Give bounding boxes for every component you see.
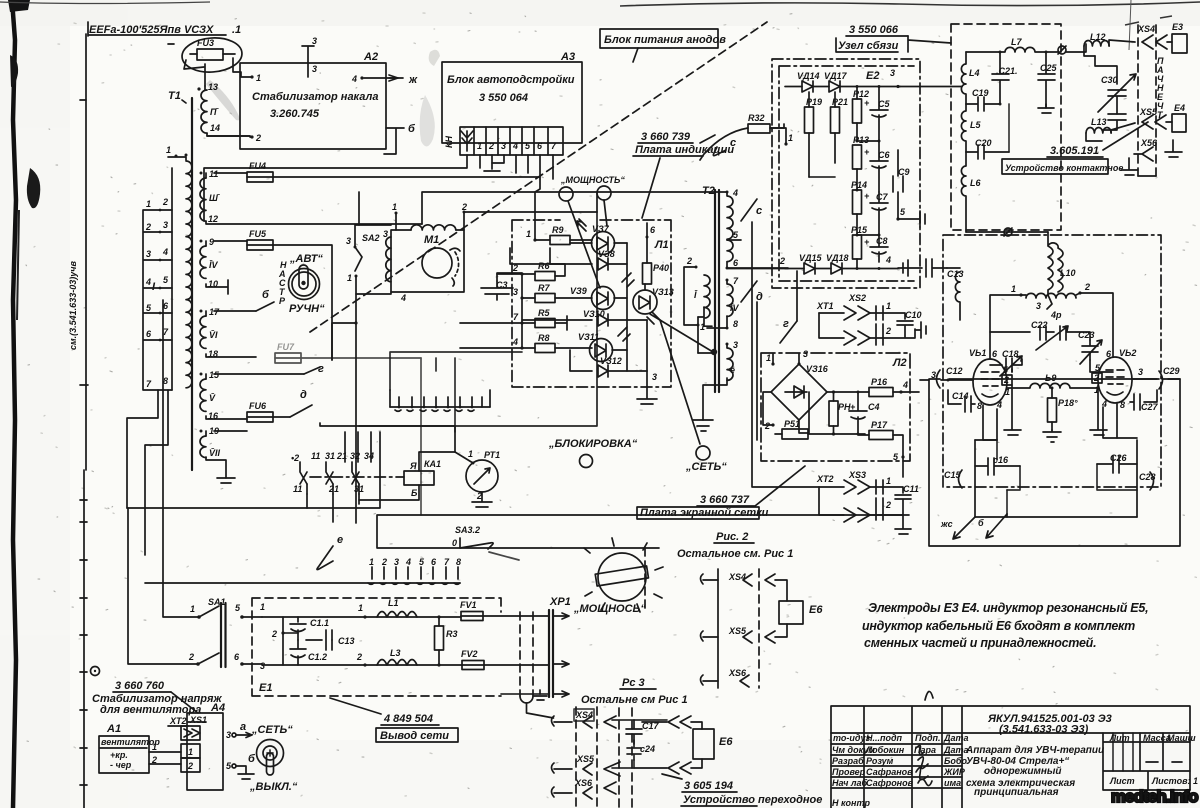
connector XS5 (fig3) (552, 754, 596, 775)
big chevrons (604, 716, 616, 728)
connector XT2/XS1 (168, 715, 207, 772)
svg-text:12: 12 (208, 214, 218, 224)
svg-text:2: 2 (885, 500, 891, 510)
lamp VD7 (577, 219, 615, 255)
svg-text:„ВЫКЛ.“: „ВЫКЛ.“ (249, 781, 298, 793)
wire FU3 down to T1 pin13 (204, 64, 206, 86)
svg-text:4: 4 (732, 188, 738, 198)
ground under X56 (1121, 158, 1138, 175)
label 3 660 737 (637, 466, 805, 519)
reference circle mark (91, 667, 100, 676)
svg-text:ХS4: ХS4 (575, 710, 593, 720)
coil L6 (961, 152, 981, 232)
label 3.660.760 stabilizer (92, 680, 222, 716)
svg-text:Я: Я (409, 461, 417, 471)
pin 4 right arrow to zh (360, 76, 363, 79)
block A3 autotune (442, 51, 582, 143)
svg-text:R9: R9 (552, 225, 564, 235)
svg-text:2: 2 (145, 222, 151, 232)
svg-text:11: 11 (311, 451, 320, 461)
svg-text:FU4: FU4 (249, 161, 266, 171)
svg-text:4: 4 (902, 380, 908, 390)
svg-text:15: 15 (209, 370, 220, 380)
label 3 550 066 / uzel svyazi (836, 24, 951, 52)
svg-text:1: 1 (886, 476, 891, 486)
svg-text:FU6: FU6 (249, 401, 267, 411)
svg-text:б: б (248, 753, 256, 765)
svg-text:3: 3 (260, 661, 265, 671)
capacitor C3 (481, 273, 522, 300)
svg-text:2: 2 (162, 197, 168, 207)
svg-text:2: 2 (764, 421, 770, 431)
svg-text:4: 4 (885, 255, 891, 265)
svg-text:А1: А1 (106, 723, 121, 735)
fuse FU4 (247, 161, 540, 182)
winding V pins 15,16 (200, 370, 305, 421)
cable shield dashed (520, 612, 533, 696)
svg-text:то-идуз: то-идуз (833, 733, 871, 743)
diode VD12 (570, 350, 647, 377)
signature squiggles (916, 745, 924, 754)
svg-text:см.(3.541.633-03)учв: см.(3.541.633-03)учв (68, 261, 78, 350)
svg-text:ХS6: ХS6 (728, 668, 747, 678)
svg-text:С29: С29 (1163, 366, 1180, 376)
switch c (741, 199, 757, 221)
svg-text:Машш: Машш (1167, 733, 1196, 743)
contact number row 1-8 (368, 557, 461, 584)
right bus of board (627, 223, 647, 371)
svg-text:VД14: VД14 (797, 71, 820, 81)
cap C28 arc (1139, 472, 1156, 490)
svg-text:Провер: Провер (832, 767, 866, 777)
svg-text:Устройство контактное: Устройство контактное (1005, 163, 1123, 173)
svg-text:R7: R7 (538, 283, 550, 293)
svg-text:3: 3 (312, 64, 317, 74)
fuse FU1 (460, 600, 549, 621)
svg-text:2: 2 (1093, 373, 1099, 383)
resistor R12 + cap C5 (853, 87, 891, 141)
capacitor C1.2 (290, 640, 327, 665)
cap C15 arc (944, 470, 962, 488)
svg-text:SА1: SА1 (208, 597, 226, 607)
switch SA2 (332, 225, 391, 523)
svg-text:Т2: Т2 (702, 185, 715, 197)
wire pins 1,2 left edge (784, 142, 787, 145)
svg-text:С18: С18 (1002, 349, 1019, 359)
svg-text:ХS2: ХS2 (848, 293, 866, 303)
svg-text:ХS5: ХS5 (728, 626, 747, 636)
resistor R7 (535, 294, 555, 303)
svg-text:РУЧН“: РУЧН“ (289, 303, 325, 315)
svg-text:2: 2 (476, 491, 482, 501)
svg-text:2: 2 (151, 755, 157, 765)
svg-text:Лист: Лист (1109, 776, 1135, 786)
svg-text:Р16: Р16 (871, 377, 888, 387)
junction dot (711, 349, 717, 355)
resistor R19 (805, 92, 823, 177)
pin b bracket (384, 128, 404, 154)
trimmer cap C18 (990, 349, 1022, 376)
svg-text:има: има (944, 778, 961, 788)
uzel svyazi dashed box (951, 24, 1061, 230)
svg-text:Бобо: Бобо (944, 756, 967, 766)
svg-text:FU5: FU5 (249, 229, 267, 239)
rails (262, 617, 462, 665)
b arrow (978, 514, 1007, 538)
svg-text:FV2: FV2 (461, 649, 478, 659)
svg-text:ĪV: ĪV (209, 260, 219, 270)
svg-text:1: 1 (369, 557, 374, 567)
svg-text:Е2: Е2 (866, 70, 879, 82)
inductor E6 (fig2) (779, 601, 823, 624)
double chevrons to E6 (668, 716, 691, 728)
svg-text:Подп.: Подп. (915, 733, 941, 743)
svg-text:4: 4 (400, 293, 406, 303)
svg-text:ĪV: ĪV (730, 303, 740, 313)
svg-text:4: 4 (145, 277, 151, 287)
pin 1 (250, 75, 253, 78)
dashed diagonal boundary (310, 22, 767, 332)
svg-text:однорежимный: однорежимный (984, 766, 1062, 777)
trimmer cap C22 (990, 320, 1090, 350)
svg-text:R5: R5 (538, 308, 550, 318)
svg-text:4 849 504: 4 849 504 (383, 713, 433, 725)
winding I left of T2 pins 2,1 (695, 266, 698, 269)
svg-text:VЗ7: VЗ7 (592, 224, 610, 234)
svg-text:С13: С13 (338, 636, 355, 646)
winding VII pin 19 (200, 426, 248, 483)
svg-text:2: 2 (488, 141, 494, 151)
svg-text:3.605.191: 3.605.191 (1050, 145, 1099, 157)
faint fuse (FU7) (275, 342, 421, 515)
resistor R17 (858, 420, 905, 477)
svg-text:3: 3 (163, 220, 168, 230)
SA3.2 bus box (377, 515, 909, 560)
dash-dot board outline (512, 220, 671, 387)
svg-text:а: а (240, 721, 246, 733)
svg-text:С1.2: С1.2 (308, 652, 327, 662)
wire pin14 to A2 pin2 (207, 135, 250, 137)
lamp VD11 (578, 327, 630, 362)
svg-text:РТ1: РТ1 (484, 450, 500, 460)
resistor R8 (535, 344, 555, 353)
svg-text:31: 31 (325, 451, 335, 461)
svg-text:3 550 066: 3 550 066 (849, 24, 899, 36)
A4 outputs (226, 721, 256, 779)
svg-text:Р18°: Р18° (1058, 398, 1078, 408)
switch SA1 (188, 597, 262, 667)
svg-text:3: 3 (513, 287, 518, 297)
svg-text:14: 14 (210, 123, 220, 133)
svg-text:2: 2 (1084, 282, 1090, 292)
board E2 dash-dot outline (772, 59, 920, 288)
svg-text:3: 3 (890, 68, 895, 78)
wire runs left column (127, 507, 307, 509)
T1 winding II pins 13,14 (197, 82, 252, 137)
svg-text:С5: С5 (878, 99, 890, 109)
svg-text:Остальне см Рис 1: Остальне см Рис 1 (581, 694, 688, 706)
wire bus into E2 from T2 (728, 268, 788, 270)
switch e (317, 546, 333, 570)
wire vertical main left of M1 (358, 192, 360, 225)
T1 core line (191, 98, 193, 470)
svg-text:2: 2 (461, 202, 467, 212)
svg-text:.1: .1 (232, 24, 241, 36)
svg-text:С11: С11 (903, 484, 919, 494)
mains toggle SET/VYKL (249, 724, 298, 793)
svg-text:б: б (262, 289, 270, 301)
svg-text:А2: А2 (363, 51, 378, 63)
svg-text:R32: R32 (748, 113, 765, 123)
svg-text:3: 3 (394, 557, 399, 567)
svg-text:ХS3: ХS3 (848, 470, 866, 480)
svg-text:Блок автоподстройки: Блок автоподстройки (447, 74, 575, 86)
svg-text:VД15: VД15 (799, 253, 823, 263)
svg-text:2: 2 (779, 256, 785, 266)
lamp VD9 (570, 273, 634, 310)
svg-text:3: 3 (146, 249, 151, 259)
svg-text:3: 3 (501, 141, 506, 151)
cap C20 (966, 104, 1009, 159)
svg-text:г: г (783, 318, 789, 330)
wire L8 ends to tubes (990, 295, 1021, 359)
svg-text:4: 4 (405, 557, 411, 567)
diode VD18 (826, 253, 898, 274)
svg-text:VЗ16: VЗ16 (806, 364, 829, 374)
svg-text:С12: С12 (946, 366, 963, 376)
svg-text:3 550 064: 3 550 064 (479, 92, 528, 104)
lamp VD13 (633, 284, 674, 324)
cap C12 (feedthrough arc) (920, 366, 973, 388)
svg-text:Розум: Розум (866, 756, 894, 766)
svg-text:Р40: Р40 (653, 263, 669, 273)
svg-text:VЬ2: VЬ2 (1119, 348, 1136, 358)
winding block I of T1 (143, 145, 192, 390)
svg-text:VД17: VД17 (824, 71, 848, 81)
svg-text:Р51: Р51 (784, 419, 800, 429)
svg-text:ХР1: ХР1 (549, 596, 571, 608)
svg-text:+: + (864, 237, 870, 247)
svg-text:1: 1 (190, 604, 195, 614)
svg-text:С1.1: С1.1 (310, 618, 329, 628)
fuse FU5 (247, 229, 332, 360)
svg-text:для вентилятора: для вентилятора (100, 704, 201, 716)
screen grid board L2 outline (761, 353, 910, 461)
svg-text:Узел сбязи: Узел сбязи (838, 40, 899, 52)
connector XS6 (fig2) (701, 668, 750, 687)
svg-text:L3: L3 (390, 648, 401, 658)
resistor R3 (435, 615, 458, 666)
svg-text:ж: ж (408, 74, 418, 86)
svg-text:R6: R6 (538, 261, 550, 271)
svg-text:3 660 737: 3 660 737 (700, 494, 750, 506)
svg-text:VЗ10: VЗ10 (583, 309, 605, 319)
svg-text:ХТ1: ХТ1 (816, 301, 834, 311)
tube VL1 (969, 348, 1012, 411)
svg-text:принципиальная: принципиальная (974, 787, 1059, 798)
svg-text:3: 3 (1138, 367, 1143, 377)
resistor R6 (535, 272, 555, 281)
svg-text:L1: L1 (388, 598, 399, 608)
net SET label (685, 446, 727, 473)
outer tank dash-dot box (943, 235, 1161, 487)
svg-text:Дата: Дата (943, 745, 969, 755)
switch g above (780, 321, 797, 343)
grid coil after C13 (947, 268, 960, 320)
label anode supply box (600, 29, 726, 62)
resistor R14 + cap C7 (851, 180, 888, 235)
node 2 column (281, 631, 284, 634)
svg-text:С7: С7 (876, 192, 888, 202)
svg-text:сменных частей и принадлежност: сменных частей и принадлежностей. (864, 636, 1096, 650)
svg-text:ЖИР: ЖИР (943, 767, 966, 777)
zh-s arrow (940, 517, 975, 539)
svg-text:1: 1 (146, 199, 151, 209)
svg-text:ХS5: ХS5 (1139, 107, 1158, 117)
smudge (206, 80, 240, 120)
svg-text:+кр.: +кр. (110, 750, 128, 760)
svg-text:Л2: Л2 (892, 357, 907, 369)
svg-text:1: 1 (700, 322, 705, 332)
svg-text:2: 2 (187, 761, 193, 771)
svg-text:М1: М1 (424, 234, 439, 246)
wire L6 to L10 with shield symbol (966, 231, 1048, 233)
svg-text:Х56: Х56 (1140, 138, 1158, 148)
inductor E6 (fig3) (693, 729, 733, 759)
fuse FU2 (461, 649, 549, 670)
svg-text:Вывод сети: Вывод сети (380, 730, 449, 742)
electrode E3 box (1172, 22, 1187, 53)
fuse FU3 (181, 36, 243, 74)
svg-text:С14: С14 (952, 391, 969, 401)
pin 1 (533, 238, 536, 241)
svg-text:Р14: Р14 (851, 180, 867, 190)
svg-text:индуктор кабельный Е6 бходят в: индуктор кабельный Е6 бходят в комплект (862, 619, 1135, 633)
svg-text:1: 1 (166, 145, 171, 155)
power dial (573, 538, 663, 615)
wire from FU4 bus down right (422, 192, 597, 224)
cap C13 (898, 259, 964, 279)
svg-text:д: д (300, 389, 307, 401)
connector X56 (1134, 138, 1158, 161)
switch contacts group 11/21/31 (291, 432, 404, 522)
svg-text:+: + (864, 147, 870, 157)
svg-text:9: 9 (209, 237, 214, 247)
svg-text:17: 17 (209, 307, 220, 317)
svg-text:Остальное см. Рис 1: Остальное см. Рис 1 (677, 548, 793, 560)
svg-text:Е4: Е4 (1174, 103, 1185, 113)
svg-text:1: 1 (152, 742, 157, 752)
svg-text:VЗ9: VЗ9 (570, 286, 587, 296)
svg-text:Аппарат для УВЧ-терапии: Аппарат для УВЧ-терапии (965, 745, 1104, 756)
svg-text:„МОЩНОСТЬ“: „МОЩНОСТЬ“ (560, 175, 625, 185)
wire M1 pin2 bus (464, 211, 597, 213)
svg-text:1: 1 (886, 301, 891, 311)
svg-text:Е3: Е3 (1172, 22, 1183, 32)
svg-text:Листов: 1: Листов: 1 (1151, 776, 1198, 786)
svg-text:2: 2 (188, 652, 194, 662)
mains filter board E1 dashed box (252, 598, 501, 696)
label 3.605.194 (662, 774, 822, 806)
winding d pins 7,8 (726, 279, 729, 282)
label 3.660.739 plata indikacii (633, 131, 736, 218)
svg-text:2: 2 (271, 629, 277, 639)
wires lower loop (996, 440, 998, 460)
svg-text:(3.541.633-03 Э3): (3.541.633-03 Э3) (999, 724, 1089, 736)
svg-text:8: 8 (733, 319, 738, 329)
A3 pin row connector (444, 127, 563, 155)
svg-text:Н контр: Н контр (832, 798, 870, 808)
svg-text:Р15: Р15 (851, 225, 868, 235)
scan edge left black bar (12, 0, 16, 808)
svg-text:R3: R3 (446, 629, 458, 639)
resistor R5 (535, 319, 555, 328)
cap C9 (893, 150, 910, 218)
svg-text:3 660 739: 3 660 739 (641, 131, 691, 143)
svg-text:1: 1 (256, 73, 261, 83)
adapter dashed column (619, 708, 632, 808)
svg-text:Блок питания анодов: Блок питания анодов (604, 34, 726, 46)
svg-text:3: 3 (733, 340, 738, 350)
diode VD10 (522, 309, 647, 326)
R32 resistor (700, 113, 784, 160)
svg-text:L6: L6 (970, 178, 981, 188)
svg-text:„МОЩНОСЬ“: „МОЩНОСЬ“ (573, 603, 646, 615)
trimmer cap C23 (1078, 330, 1113, 372)
svg-text:V̄I: V̄I (209, 330, 218, 340)
coil L5 (961, 104, 981, 152)
wire E2 out right (898, 86, 962, 88)
svg-text:3: 3 (312, 36, 317, 46)
svg-text:1: 1 (392, 202, 397, 212)
switch b contact (256, 289, 274, 311)
svg-text:С8: С8 (876, 236, 888, 246)
svg-text:SА2: SА2 (362, 233, 380, 243)
ground under C25 (1038, 104, 1054, 113)
switch g contact (304, 367, 320, 374)
cap C21 (992, 51, 1018, 105)
svg-text:34: 34 (364, 451, 374, 461)
wires relay area (320, 423, 455, 452)
svg-text:Р17: Р17 (871, 420, 888, 430)
svg-text:Нач лаб: Нач лаб (832, 778, 868, 788)
svg-text:1: 1 (788, 133, 793, 143)
svg-text:L7: L7 (1011, 37, 1022, 47)
diode VD14 (785, 71, 829, 92)
svg-text:с24: с24 (640, 744, 655, 754)
cap C16 (975, 455, 1020, 475)
long slant from VD13 to T2 junction (650, 314, 713, 352)
winding III pins 11,12 (200, 169, 423, 224)
svg-text:VЬ1: VЬ1 (969, 348, 986, 358)
ground below A3 pin (484, 155, 504, 171)
svg-text:Н...подп: Н...подп (866, 733, 903, 743)
scan top edge line (620, 2, 1200, 6)
svg-text:Р13: Р13 (853, 135, 869, 145)
resistor R15 + cap C8 (851, 225, 888, 268)
resistor R40 (643, 263, 652, 284)
svg-text:2: 2 (381, 557, 387, 567)
svg-text:8: 8 (977, 401, 982, 411)
svg-text:Устройство переходное: Устройство переходное (683, 794, 822, 806)
svg-text:Рис. 2: Рис. 2 (716, 531, 748, 543)
svg-text:FU7: FU7 (277, 342, 295, 352)
resistor R16 (827, 377, 919, 397)
svg-text:С6: С6 (878, 150, 890, 160)
svg-text:VД18: VД18 (826, 253, 849, 263)
svg-text:Е6: Е6 (719, 736, 733, 748)
connector XS6 (fig3) (552, 778, 594, 799)
